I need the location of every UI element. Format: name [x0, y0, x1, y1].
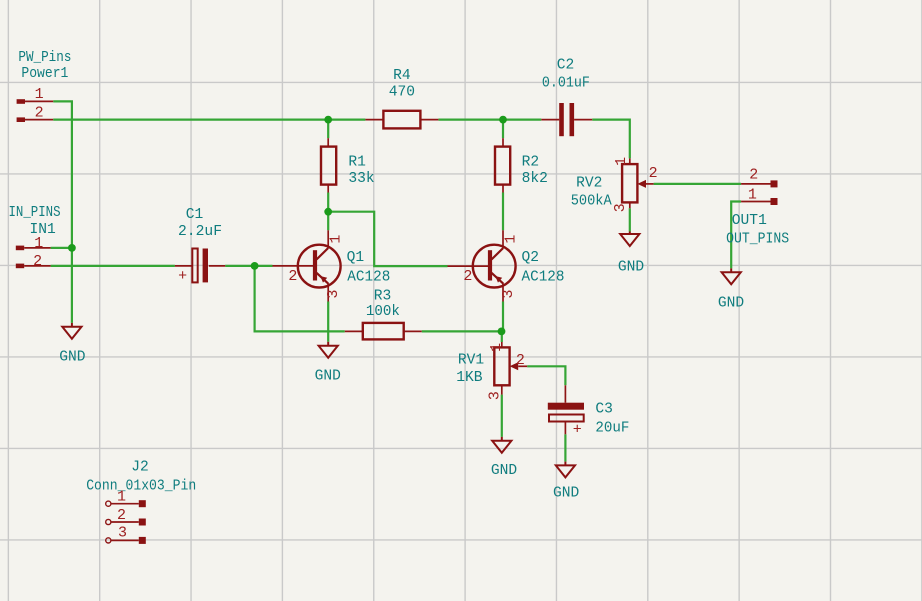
- svg-text:Conn_01x03_Pin: Conn_01x03_Pin: [86, 479, 196, 495]
- svg-text:GND: GND: [553, 485, 580, 501]
- svg-text:3: 3: [118, 525, 127, 542]
- svg-text:1: 1: [503, 235, 520, 244]
- svg-text:AC128: AC128: [522, 269, 565, 285]
- svg-text:Q2: Q2: [522, 250, 540, 266]
- svg-text:2: 2: [649, 165, 658, 182]
- svg-text:2: 2: [288, 268, 297, 285]
- svg-text:GND: GND: [315, 368, 342, 384]
- svg-text:R3: R3: [374, 289, 392, 305]
- svg-text:1: 1: [488, 343, 505, 352]
- svg-text:GND: GND: [59, 349, 86, 365]
- svg-text:3: 3: [325, 289, 342, 298]
- svg-text:GND: GND: [618, 259, 645, 275]
- svg-text:GND: GND: [718, 296, 745, 312]
- svg-text:+: +: [178, 268, 187, 285]
- svg-text:3: 3: [500, 289, 517, 298]
- svg-text:3: 3: [612, 203, 629, 212]
- svg-text:+: +: [573, 421, 582, 438]
- svg-text:2.2uF: 2.2uF: [178, 224, 222, 240]
- svg-text:2: 2: [117, 507, 126, 524]
- svg-text:PW_Pins: PW_Pins: [18, 50, 71, 66]
- svg-text:1: 1: [35, 86, 44, 103]
- svg-text:Q1: Q1: [347, 250, 365, 266]
- svg-text:500kA: 500kA: [571, 194, 612, 210]
- svg-text:2: 2: [749, 167, 758, 184]
- svg-text:1: 1: [748, 187, 757, 204]
- svg-text:R4: R4: [393, 68, 411, 84]
- svg-text:RV1: RV1: [458, 353, 485, 369]
- svg-text:2: 2: [33, 253, 42, 270]
- svg-text:J2: J2: [131, 459, 149, 475]
- svg-text:C1: C1: [186, 207, 204, 223]
- svg-text:33k: 33k: [348, 171, 375, 187]
- svg-text:R1: R1: [348, 154, 366, 170]
- svg-text:1: 1: [613, 157, 630, 166]
- svg-text:2: 2: [516, 352, 525, 369]
- svg-text:Power1: Power1: [21, 66, 68, 82]
- svg-text:R2: R2: [522, 154, 540, 170]
- svg-text:3: 3: [486, 391, 503, 400]
- svg-text:8k2: 8k2: [522, 171, 548, 187]
- svg-text:RV2: RV2: [576, 175, 602, 191]
- svg-text:GND: GND: [491, 463, 518, 479]
- svg-text:OUT1: OUT1: [732, 213, 767, 229]
- svg-text:1KB: 1KB: [456, 370, 483, 386]
- svg-text:1: 1: [328, 235, 345, 244]
- svg-text:100k: 100k: [366, 304, 400, 320]
- svg-text:2: 2: [463, 268, 472, 285]
- svg-text:C2: C2: [557, 58, 575, 74]
- svg-text:IN_PINS: IN_PINS: [9, 205, 61, 221]
- svg-text:AC128: AC128: [347, 269, 390, 285]
- svg-text:20uF: 20uF: [595, 421, 629, 437]
- svg-text:1: 1: [117, 489, 126, 506]
- svg-text:1: 1: [34, 235, 43, 252]
- svg-text:0.01uF: 0.01uF: [542, 76, 590, 92]
- svg-text:2: 2: [35, 105, 44, 122]
- svg-text:OUT_PINS: OUT_PINS: [726, 231, 789, 247]
- svg-text:470: 470: [389, 85, 415, 101]
- svg-text:C3: C3: [595, 402, 613, 418]
